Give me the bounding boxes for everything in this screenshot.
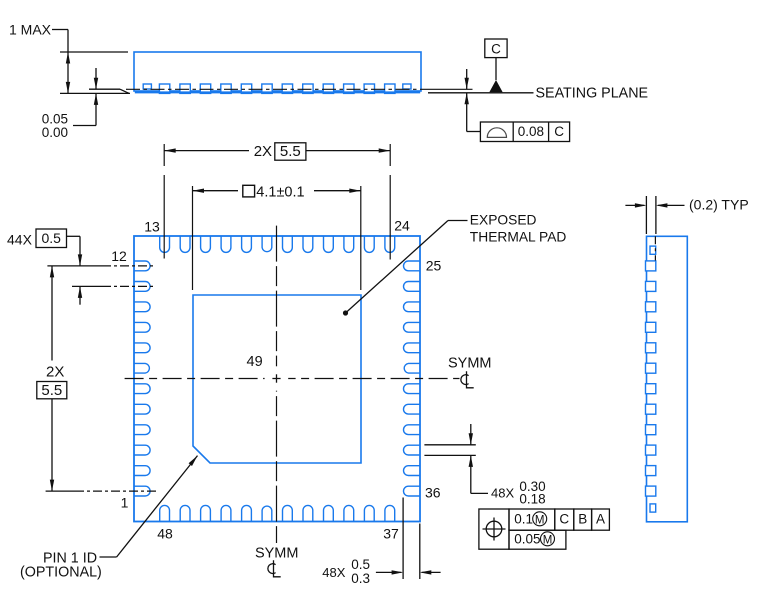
svg-text:SYMM: SYMM — [255, 546, 299, 562]
svg-text:1 MAX: 1 MAX — [9, 22, 52, 38]
svg-text:EXPOSED: EXPOSED — [470, 212, 537, 227]
svg-text:5.5: 5.5 — [280, 143, 301, 160]
svg-text:0.18: 0.18 — [519, 492, 545, 507]
svg-text:0.08: 0.08 — [518, 124, 544, 139]
svg-text:0.3: 0.3 — [351, 571, 370, 586]
svg-text:48X: 48X — [491, 485, 514, 500]
svg-text:0.05: 0.05 — [514, 532, 540, 547]
svg-text:C: C — [491, 42, 501, 57]
svg-text:0.5: 0.5 — [351, 557, 370, 572]
svg-text:49: 49 — [247, 354, 263, 370]
svg-text:36: 36 — [425, 485, 441, 501]
svg-text:0.00: 0.00 — [42, 125, 68, 140]
svg-text:5.5: 5.5 — [41, 382, 62, 399]
svg-text:2X: 2X — [254, 143, 272, 160]
svg-text:13: 13 — [144, 219, 160, 235]
svg-text:48: 48 — [157, 526, 173, 542]
svg-text:THERMAL PAD: THERMAL PAD — [470, 230, 567, 245]
svg-text:M: M — [535, 514, 545, 526]
svg-text:24: 24 — [394, 218, 410, 234]
svg-text:48X: 48X — [322, 565, 345, 580]
svg-text:C: C — [554, 124, 564, 139]
svg-text:(0.2) TYP: (0.2) TYP — [689, 196, 749, 212]
svg-text:A: A — [596, 512, 605, 527]
svg-text:2X: 2X — [46, 363, 64, 380]
svg-text:44X: 44X — [7, 232, 33, 248]
svg-text:37: 37 — [383, 526, 399, 542]
svg-text:4.1±0.1: 4.1±0.1 — [256, 184, 304, 200]
svg-text:25: 25 — [426, 258, 442, 274]
svg-text:0.1: 0.1 — [514, 512, 533, 527]
svg-text:B: B — [578, 512, 587, 527]
svg-text:M: M — [543, 534, 553, 546]
svg-text:12: 12 — [111, 248, 127, 264]
svg-text:(OPTIONAL): (OPTIONAL) — [20, 565, 102, 581]
svg-text:SYMM: SYMM — [448, 356, 492, 372]
svg-text:1: 1 — [121, 495, 129, 511]
svg-text:SEATING PLANE: SEATING PLANE — [536, 85, 649, 101]
svg-text:C: C — [559, 512, 569, 527]
svg-text:0.5: 0.5 — [41, 230, 61, 246]
svg-text:0.05: 0.05 — [42, 111, 68, 126]
